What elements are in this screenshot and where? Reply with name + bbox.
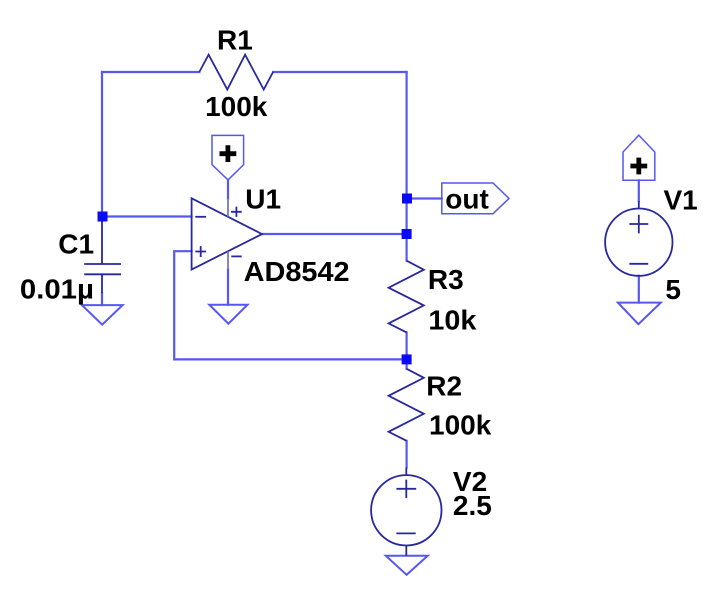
svg-text:0.01µ: 0.01µ	[20, 274, 94, 305]
svg-text:10k: 10k	[428, 305, 476, 336]
svg-text:100k: 100k	[205, 91, 268, 122]
svg-text:R2: R2	[426, 371, 462, 402]
svg-text:U1: U1	[245, 183, 281, 214]
svg-text:C1: C1	[58, 228, 94, 259]
svg-text:100k: 100k	[429, 409, 492, 440]
svg-text:out: out	[445, 184, 489, 215]
svg-text:R1: R1	[217, 25, 253, 56]
svg-text:2.5: 2.5	[453, 490, 492, 521]
svg-text:AD8542: AD8542	[244, 256, 350, 287]
svg-text:V1: V1	[664, 184, 698, 215]
svg-text:R3: R3	[428, 264, 464, 295]
svg-text:5: 5	[665, 274, 681, 305]
